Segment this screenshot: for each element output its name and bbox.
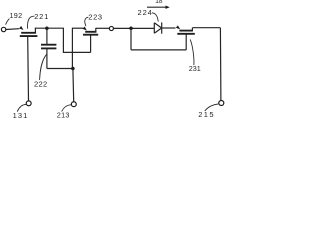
svg-text:131: 131 [13, 111, 29, 120]
svg-text:18: 18 [155, 0, 163, 5]
svg-text:192: 192 [10, 11, 23, 20]
svg-text:213: 213 [57, 111, 70, 120]
svg-text:223: 223 [88, 12, 102, 21]
svg-text:222: 222 [34, 80, 47, 89]
svg-text:224: 224 [138, 8, 153, 17]
svg-text:221: 221 [34, 12, 49, 21]
svg-text:215: 215 [198, 110, 215, 119]
svg-text:231: 231 [189, 64, 201, 73]
